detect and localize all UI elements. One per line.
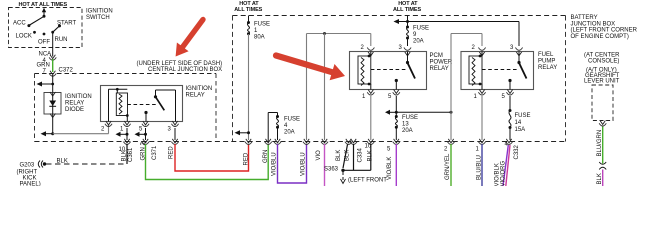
wire VIO/ORG diagonal down: [501, 145, 510, 187]
svg-text:IGNITION: IGNITION: [65, 94, 92, 100]
wire VIO (magenta) down: [316, 144, 325, 186]
ground G203: [20, 159, 128, 169]
wire BLK vertical to S363: [344, 144, 353, 170]
wire (magenta) below inline connector: [597, 170, 603, 187]
label (AT CENTER CONSOLE): [584, 53, 620, 65]
wire BLU/GRN down: [597, 127, 603, 164]
svg-text:BLU/GRN: BLU/GRN: [597, 130, 603, 157]
svg-text:ALL TIMES: ALL TIMES: [234, 7, 262, 13]
junction + left continuation arrow above diode: [37, 82, 55, 87]
annotation arrow 1 (points to CJB label): [176, 20, 203, 57]
PCM relay pin 3 connector: [399, 45, 412, 56]
svg-text:RELAY: RELAY: [430, 66, 449, 72]
shared bottom dashed boundary CJB+BJB: [35, 141, 566, 143]
svg-text:PCM: PCM: [430, 53, 443, 59]
svg-text:BLK: BLK: [336, 150, 342, 161]
svg-text:IGNITION: IGNITION: [86, 9, 113, 15]
wire BLU/BLU down: [476, 144, 482, 186]
svg-text:JUNCTION BOX: JUNCTION BOX: [571, 21, 616, 27]
fuse 13 20A: [395, 115, 418, 140]
ignition relay diode U1: [44, 92, 61, 118]
wire: GRN riser to fuse 4: [268, 113, 277, 142]
boundary connector C332: [505, 139, 520, 160]
wire: feed to fuel pump relay pin 3: [408, 22, 520, 47]
svg-text:FUSE: FUSE: [402, 115, 418, 121]
junction + left continuation arrow near boundary: [235, 130, 251, 135]
svg-text:(LEFT FRONT CORNER: (LEFT FRONT CORNER: [571, 28, 638, 34]
fuel pump relay box U3: [461, 52, 534, 90]
label PCM POWER RELAY: [430, 53, 453, 72]
ignition relay pin 2: [101, 121, 112, 133]
svg-text:SWITCH: SWITCH: [86, 15, 110, 21]
svg-text:BLK: BLK: [122, 150, 128, 161]
svg-text:RELAY: RELAY: [186, 93, 205, 99]
PCM relay pin 5 connector: [388, 90, 400, 101]
PCM relay coil: [358, 52, 371, 90]
fuel pump relay switch: [508, 52, 526, 90]
wire VIO/BLU U-shape: [272, 144, 307, 183]
wire VIO/BLK diagonal down: [494, 145, 508, 187]
boundary connector RED (BJB): [245, 139, 252, 145]
fuse 9 20A: [406, 26, 429, 45]
label HOT AT ALL TIMES (right): [393, 1, 421, 13]
svg-text:OFF: OFF: [38, 40, 50, 46]
svg-text:IGNITION: IGNITION: [186, 86, 213, 92]
pin 7 label: [43, 69, 47, 75]
svg-text:(LEFT FRONT: (LEFT FRONT: [348, 178, 387, 184]
svg-text:BATTERY: BATTERY: [571, 15, 598, 21]
svg-text:OF ENGINE COMPT): OF ENGINE COMPT): [571, 34, 629, 40]
bus: switched power (gray): [307, 32, 371, 46]
label IGNITION RELAY: [186, 86, 213, 99]
node ACC: [13, 21, 30, 28]
boundary connector C371: [142, 139, 149, 145]
fuel pump relay mechanical link (dashed): [482, 69, 518, 71]
wire pin3 down: [174, 128, 176, 140]
label NCA: [39, 52, 52, 58]
svg-text:20A: 20A: [402, 128, 413, 134]
label (A/T ONLY) GEARSHIFT LEVER UNIT: [584, 68, 620, 85]
boundary connector VIO/BLU 2: [303, 139, 310, 145]
wire RED U-shape to BJB: [168, 144, 249, 171]
svg-text:VIO/ORG: VIO/ORG: [501, 160, 507, 186]
svg-text:LOCK: LOCK: [16, 34, 32, 40]
node RUN + blade RUN-START: [51, 26, 67, 43]
label FUEL PUMP RELAY: [538, 52, 557, 71]
svg-text:BLK: BLK: [367, 150, 373, 161]
svg-text:NCA: NCA: [39, 52, 52, 58]
label (LEFT FRONT: [348, 178, 387, 184]
label (UNDER LEFT SIDE OF DASH) CENTRAL JUNCTION BOX: [137, 61, 223, 73]
fuse 14 15A: [509, 109, 531, 140]
wire BLK C361 to G203 splice: [122, 144, 135, 164]
connector at pin 4: [49, 55, 56, 61]
wire (gray): PCM pin 1 to boundary: [370, 96, 372, 140]
svg-text:C371: C371: [152, 145, 158, 160]
wire pin1 with continuation arrow stub: [116, 128, 129, 140]
svg-text:FUSE: FUSE: [254, 22, 270, 28]
gearshift connector: [599, 121, 606, 127]
fuse 4 20A: [276, 113, 300, 141]
node START: [57, 21, 76, 28]
svg-text:C332: C332: [514, 144, 520, 159]
svg-text:RELAY: RELAY: [538, 65, 557, 71]
wire pin5 with continuation arrow stub: [135, 128, 148, 140]
svg-text:RED: RED: [243, 152, 249, 165]
svg-text:VIO: VIO: [316, 150, 322, 161]
boundary connector C361: [119, 139, 131, 153]
PCM relay pin 1 connector: [362, 90, 374, 101]
ignition relay pin 5: [139, 121, 149, 133]
svg-text:HOT AT ALL TIMES: HOT AT ALL TIMES: [19, 2, 68, 8]
svg-text:POWER: POWER: [430, 60, 453, 66]
svg-text:PUMP: PUMP: [538, 59, 555, 65]
label (RIGHT KICK PANEL): [17, 170, 41, 188]
svg-text:FUSE: FUSE: [515, 113, 531, 119]
svg-text:15A: 15A: [515, 127, 526, 133]
boundary connector VIO: [321, 139, 328, 145]
ignition relay coil: [109, 88, 129, 122]
svg-text:VIO/BLK: VIO/BLK: [494, 163, 500, 186]
PCM relay pin 2 connector: [361, 45, 375, 56]
svg-text:ACC: ACC: [13, 21, 26, 27]
svg-text:RUN: RUN: [55, 37, 68, 43]
label GRN: [37, 63, 50, 69]
pin 4 label: [43, 58, 47, 64]
wire: diode to lower junction: [52, 114, 54, 134]
annotation arrow 2 (points to PCM relay coil): [276, 56, 345, 81]
svg-text:C372: C372: [59, 68, 74, 74]
label IGNITION SWITCH: [86, 9, 113, 22]
ignition relay mechanical link (dashed): [127, 104, 156, 106]
boundary connector below PCM pin 1 (C334): [365, 139, 375, 150]
wire (gray) vertical A: bus to VIO/BLU connector: [306, 34, 308, 141]
wire BLK from C334 to splice S363: [343, 144, 373, 170]
wire: fuel pump pin 5 to fuse 14: [509, 96, 511, 110]
boundary connector BLK (vertical): [350, 139, 357, 145]
svg-text:LEVER UNIT: LEVER UNIT: [584, 79, 620, 85]
wire: S363 to ground (dash): [341, 172, 346, 184]
svg-text:BLK: BLK: [344, 150, 350, 161]
wire GRN (green) ignition switch to C372: [52, 59, 54, 72]
PCM relay switch: [395, 52, 415, 90]
ignition switch wiper to ACC: [29, 16, 44, 25]
svg-text:PANEL): PANEL): [20, 182, 41, 187]
svg-text:BLK: BLK: [597, 173, 603, 184]
svg-text:BLU/BLU: BLU/BLU: [476, 155, 482, 180]
wire: RUN output down from switch: [52, 32, 54, 56]
svg-text:START: START: [57, 21, 76, 27]
ignition relay K1: [101, 86, 183, 122]
junction + left continuation arrow below diode: [41, 131, 55, 136]
ignition switch box: [9, 8, 83, 48]
svg-text:GRN/YEL: GRN/YEL: [445, 153, 451, 180]
svg-text:FUSE: FUSE: [284, 117, 300, 123]
splice S363: [324, 167, 345, 173]
svg-text:G203: G203: [20, 163, 35, 169]
wire BLK diagonal to S363: [336, 145, 348, 169]
boundary connector RED (CJB pin3): [171, 139, 178, 145]
svg-text:ALL TIMES: ALL TIMES: [393, 7, 421, 13]
boundary connector GRN/YEL: [444, 139, 455, 153]
wire (gray): fuel pump pin 1 to boundary: [481, 96, 483, 140]
svg-text:GRN: GRN: [263, 150, 269, 163]
wire: fuse 9 to PCM relay pin 3: [407, 38, 409, 46]
node OFF: [38, 33, 50, 46]
label BATTERY JUNCTION BOX (LEFT FRONT CORNER OF ENGINE COMPT): [571, 15, 638, 40]
wire GRN/YEL down: [445, 144, 451, 186]
node LOCK: [16, 31, 36, 40]
label HOT AT ALL TIMES (middle): [234, 1, 262, 13]
svg-text:C334: C334: [357, 147, 363, 162]
svg-text:C361: C361: [128, 147, 134, 162]
svg-text:13: 13: [402, 122, 409, 128]
fuel pump relay coil: [469, 52, 482, 90]
svg-text:VIO/BLU: VIO/BLU: [272, 152, 278, 176]
ignition relay pin 3: [168, 121, 179, 133]
gearshift lever unit box: [592, 85, 613, 121]
svg-text:CENTRAL JUNCTION BOX: CENTRAL JUNCTION BOX: [148, 67, 222, 73]
boundary connector GRN (BJB): [265, 139, 272, 145]
fuel pump relay pin 5 connector: [502, 90, 514, 101]
wire GRN U-shape to BJB: [140, 142, 269, 180]
svg-text:HOT AT: HOT AT: [239, 1, 259, 7]
svg-text:S363: S363: [324, 167, 339, 173]
fuel pump relay pin 3 connector: [510, 45, 523, 56]
svg-text:VIO/BLU: VIO/BLU: [301, 152, 307, 176]
ignition relay switch: [144, 90, 175, 122]
PCM relay mechanical link (dashed): [371, 69, 406, 71]
wire: C372 down inside CJB: [52, 75, 54, 93]
fuel pump relay pin 2 connector: [472, 45, 486, 56]
svg-text:RED: RED: [168, 146, 174, 159]
ignition relay pin 1: [120, 121, 131, 133]
svg-text:FUEL: FUEL: [538, 52, 554, 58]
wire: feed at fuse 9: [394, 16, 410, 27]
svg-text:80A: 80A: [254, 35, 265, 41]
label HOT AT ALL TIMES (left): [19, 2, 68, 8]
fuel pump relay pin 1 connector: [474, 90, 486, 101]
inline connector on gearshift wire: [599, 162, 606, 170]
wire: feed arrow into ignition switch: [42, 8, 46, 18]
wire (gray): diode junction to ignition relay pin 2: [53, 125, 109, 134]
boundary connector VIO/BLK: [387, 139, 400, 153]
wire: fuse 1 feed: [248, 16, 250, 23]
boundary connector BLU/BLU: [476, 139, 486, 153]
svg-text:GRN 2: GRN 2: [140, 142, 146, 161]
svg-text:BLK: BLK: [57, 159, 68, 165]
svg-text:DIODE: DIODE: [65, 107, 84, 113]
wire VIO/BLK down: [387, 144, 396, 186]
boundary connector BLK (diagonal): [345, 139, 352, 145]
central junction box (dashed): [35, 74, 217, 142]
label IGNITION RELAY DIODE: [65, 94, 92, 113]
wire: PCM pin 5 junction to fuel pump relay coil riser: [396, 111, 452, 114]
wire (gray): fuse 1 down to boundary: [248, 34, 250, 140]
connector C372: [49, 68, 73, 77]
svg-text:20A: 20A: [413, 39, 424, 45]
svg-text:FUSE: FUSE: [413, 26, 429, 32]
PCM relay box U2: [350, 52, 427, 90]
svg-text:VIO/BLK: VIO/BLK: [387, 157, 393, 180]
svg-text:HOT AT: HOT AT: [398, 1, 418, 7]
wire: PCM pin 5 down with junction: [385, 96, 398, 116]
svg-text:20A: 20A: [284, 130, 295, 136]
svg-text:CONSOLE): CONSOLE): [588, 59, 619, 65]
boundary connector VIO/BLU 1: [274, 139, 281, 145]
wire (gray): riser to fuel pump relay pin 2: [451, 34, 482, 141]
battery junction box (dashed): [233, 16, 566, 142]
fuse 1 80A: [247, 21, 270, 41]
wire (gray) vertical B: bus to VIO connector: [324, 34, 326, 141]
svg-text:14: 14: [515, 120, 522, 126]
svg-text:RELAY: RELAY: [65, 101, 84, 107]
